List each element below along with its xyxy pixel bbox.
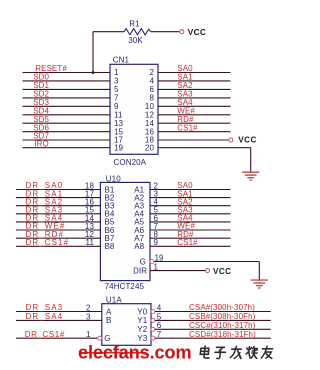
svg-text:G: G [140, 257, 146, 266]
wire net DR_WE# to U10 pin 13 [16, 229, 100, 231]
svg-text:CSC#(310h-317h): CSC#(310h-317h) [189, 321, 256, 330]
wire net SA0 from U10 pin 2 [150, 189, 231, 191]
wire vertical from R1 down to RESET# net [92, 32, 94, 74]
svg-text:CSA#(300h-307h): CSA#(300h-307h) [189, 303, 255, 312]
wire U10 pin 19 vertical drop to ground [258, 262, 260, 280]
power symbol VCC (top right of R1) [180, 30, 184, 34]
svg-text:VCC: VCC [213, 267, 232, 276]
wire net SA4 from U10 pin 6 [150, 221, 231, 223]
svg-text:VCC: VCC [238, 136, 256, 145]
svg-text:CSD#(318h-31Fh): CSD#(318h-31Fh) [189, 330, 256, 339]
wire net CS1# from U10 pin 9 [150, 245, 231, 247]
wire CN1 pin 18 to VCC [158, 139, 228, 141]
active-low bubble on U1A Y0 output [151, 310, 155, 314]
junction dot at RESET# and R1 wire [92, 71, 95, 74]
wire net CSD#(318h-31Fh) from U1A pin 7 [155, 337, 271, 339]
svg-text:Y2: Y2 [137, 325, 147, 334]
wire net SD3 to CN1 pin 9 [23, 105, 111, 107]
active-low bubble on U10 G pin [150, 260, 154, 264]
svg-text:20: 20 [145, 143, 155, 152]
wire net SA2 from CN1 pin 6 [158, 88, 231, 90]
svg-text:Y0: Y0 [137, 307, 147, 316]
IC U1A body [102, 304, 151, 346]
wire net DR_SA3 to U10 pin 15 [16, 213, 100, 215]
power symbol VCC (at U10 DIR pin) [206, 269, 210, 273]
active-low bubble on U1A Y3 output [151, 336, 155, 340]
wire net DR_SA4 to U10 pin 14 [16, 221, 100, 223]
wire net WE# from U10 pin 7 [150, 229, 231, 231]
wire net SD0 to CN1 pin 3 [23, 80, 111, 82]
wire net SA3 from CN1 pin 8 [158, 97, 231, 99]
wire net SD6 to CN1 pin 15 [23, 131, 111, 133]
wire net DR_SA1 to U10 pin 17 [16, 197, 100, 199]
wire net CSB#(308h-30Fh) from U1A pin 5 [155, 319, 271, 321]
wire R1 left lead [93, 31, 124, 33]
wire net DR_SA4 to U1A pin 3 [16, 319, 102, 321]
active-low bubble on U1A Y1 output [151, 318, 155, 322]
svg-text:VCC: VCC [188, 28, 207, 37]
svg-text:DR_SA3: DR_SA3 [26, 303, 64, 312]
svg-text:Y1: Y1 [137, 316, 147, 325]
svg-text:elecfans.com: elecfans.com [78, 342, 191, 363]
watermark Chinese text dian-zi-fa-shao-you [200, 346, 273, 359]
active-low bubble on U1A Y2 output [151, 327, 155, 331]
wire net DR_SA0 to U10 pin 18 [16, 189, 100, 191]
svg-text:1: 1 [86, 330, 91, 339]
svg-text:CON20A: CON20A [114, 158, 147, 167]
svg-text:DR_SA4: DR_SA4 [26, 312, 64, 321]
svg-text:A8: A8 [134, 242, 144, 251]
wire CN1 pin 20 vertical drop to ground [250, 148, 252, 172]
wire net SD7 to CN1 pin 17 [23, 139, 111, 141]
svg-text:CS1#: CS1# [177, 238, 198, 247]
ground symbol (below U10 pin 19) [251, 279, 268, 281]
wire net SA2 from U10 pin 4 [150, 205, 231, 207]
svg-text:9: 9 [154, 238, 159, 247]
svg-text:DIR: DIR [133, 266, 147, 275]
svg-text:CS1#: CS1# [177, 123, 198, 132]
wire net WE# from CN1 pin 12 [158, 114, 231, 116]
svg-text:DR_CS1#: DR_CS1# [25, 330, 65, 339]
wire net RESET# to CN1 pin 1 [23, 72, 111, 74]
wire net SA3 from U10 pin 5 [150, 213, 231, 215]
svg-text:CN1: CN1 [113, 56, 130, 65]
wire net SD2 to CN1 pin 7 [23, 97, 111, 99]
svg-text:30K: 30K [128, 36, 143, 45]
svg-text:B8: B8 [105, 242, 115, 251]
svg-text:R1: R1 [129, 19, 140, 28]
IC U10 body [100, 182, 150, 280]
svg-text:U10: U10 [106, 174, 121, 183]
wire net SD5 to CN1 pin 13 [23, 122, 111, 124]
svg-text:DR_CS1#: DR_CS1# [26, 238, 70, 247]
wire net RD# from CN1 pin 14 [158, 122, 231, 124]
wire U10 pin 19 horizontal to ground [154, 261, 259, 263]
wire net SA4 from CN1 pin 10 [158, 105, 231, 107]
svg-text:74HCT245: 74HCT245 [105, 282, 145, 291]
connector CN1 body [110, 64, 158, 154]
wire net DR_RD# to U10 pin 12 [16, 237, 100, 239]
svg-text:3: 3 [86, 312, 91, 321]
wire net DR_SA3 to U1A pin 2 [16, 311, 102, 313]
svg-text:A: A [106, 307, 112, 316]
wire U10 pin 1 DIR to VCC [150, 270, 205, 272]
active-low bubble on U1A G pin [98, 336, 102, 340]
wire CN1 pin 20 horizontal to ground [158, 147, 251, 149]
svg-text:2: 2 [86, 303, 91, 312]
wire net DR_CS1# to U1A pin 1 [16, 337, 98, 339]
wire net SA1 from CN1 pin 4 [158, 80, 231, 82]
wire net IRQ to CN1 pin 19 [23, 147, 111, 149]
svg-text:19: 19 [114, 143, 124, 152]
wire net SA1 from U10 pin 3 [150, 197, 231, 199]
wire net CS1# from CN1 pin 16 [158, 131, 231, 133]
wire net DR_CS1# to U10 pin 11 [16, 245, 100, 247]
svg-text:U1A: U1A [106, 295, 122, 304]
wire net RD# from U10 pin 8 [150, 237, 231, 239]
ground symbol (below CN1 pin 20) [242, 171, 259, 173]
resistor R1 [124, 29, 151, 35]
wire net DR_SA2 to U10 pin 16 [16, 205, 100, 207]
svg-text:B: B [106, 316, 111, 325]
wire R1 right lead to VCC [151, 31, 180, 33]
power symbol VCC (at CN1 pin 18) [229, 138, 233, 142]
svg-text:IRQ: IRQ [34, 139, 49, 148]
svg-text:CSB#(308h-30Fh): CSB#(308h-30Fh) [189, 312, 256, 321]
wire net CSC#(310h-317h) from U1A pin 6 [155, 328, 271, 330]
wire net SD4 to CN1 pin 11 [23, 114, 111, 116]
wire net SD1 to CN1 pin 5 [23, 88, 111, 90]
wire net CSA#(300h-307h) from U1A pin 4 [155, 311, 271, 313]
svg-text:11: 11 [85, 238, 94, 247]
wire net SA0 from CN1 pin 2 [158, 72, 231, 74]
